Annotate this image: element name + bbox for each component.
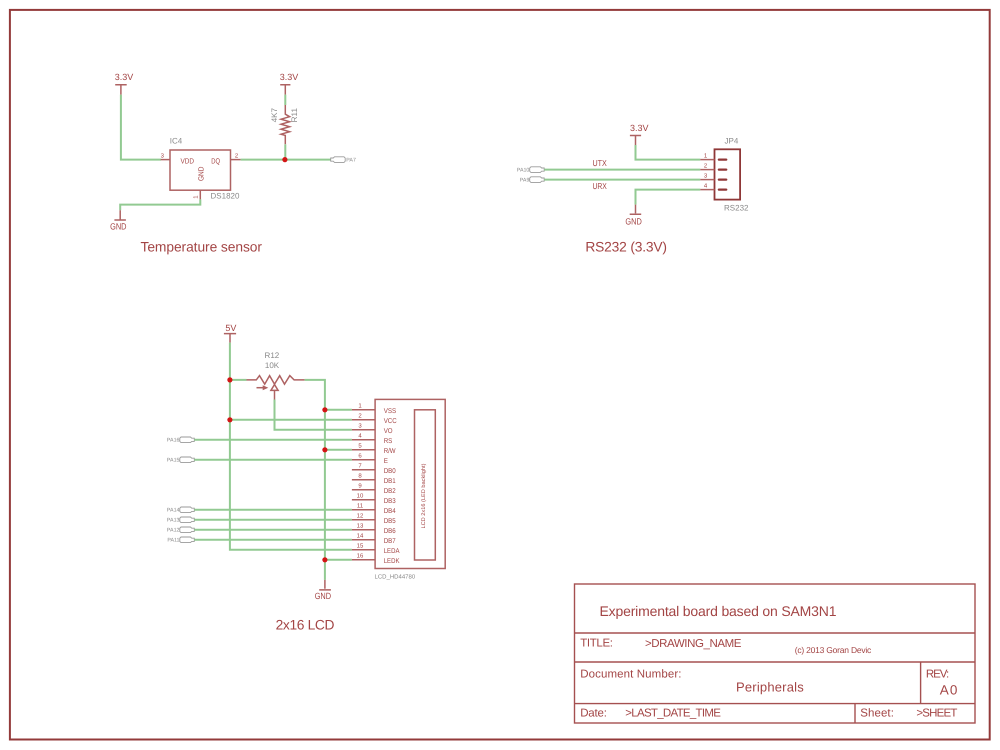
svg-text:R11: R11 <box>290 107 299 122</box>
net flag PA16 <box>167 437 194 444</box>
net flag PA9 <box>520 177 544 184</box>
wire 3.3V to R11 <box>284 95 286 105</box>
wire GND rail to VSS <box>325 409 352 411</box>
net flag PA13 <box>167 517 194 524</box>
junction node DQ/R11/PA7 <box>282 157 287 162</box>
net flag PA10 <box>517 167 544 174</box>
svg-text:TITLE:: TITLE: <box>580 638 613 650</box>
svg-text:DB3: DB3 <box>384 498 396 505</box>
svg-text:RS: RS <box>384 438 393 445</box>
svg-text:VSS: VSS <box>384 408 397 415</box>
svg-text:3.3V: 3.3V <box>115 72 134 82</box>
svg-text:VDD: VDD <box>181 156 195 165</box>
LCD pin 11 (DB4) <box>352 503 396 515</box>
power 3.3V (RS232) <box>630 123 649 145</box>
wire PA11 to DB7 <box>194 539 352 541</box>
LCD pin 12 (DB5) <box>352 513 396 526</box>
wire 5V rail to LEDA <box>230 343 352 550</box>
svg-text:5V: 5V <box>225 323 236 333</box>
svg-text:E: E <box>384 458 388 465</box>
wire 5V rail to R12 left <box>230 379 247 381</box>
net flag PA12 <box>167 527 194 534</box>
svg-text:DS1820: DS1820 <box>211 192 240 201</box>
svg-text:DQ: DQ <box>211 156 220 165</box>
ground GND (RS232) <box>625 205 642 227</box>
svg-text:LEDK: LEDK <box>384 558 400 565</box>
LCD pin 7 (DB0) <box>352 463 396 476</box>
wire R12 wiper to VO <box>275 400 352 430</box>
svg-text:UTX: UTX <box>593 158 608 168</box>
wire GND rail to LEDK <box>325 559 352 561</box>
LCD pin 13 (DB6) <box>352 523 396 536</box>
svg-text:15: 15 <box>357 543 364 550</box>
wire GND rail to R/W <box>325 449 352 451</box>
LCD pin 15 (LEDA) <box>352 543 400 556</box>
svg-text:PA13: PA13 <box>167 518 180 524</box>
svg-text:PA7: PA7 <box>346 158 356 164</box>
junction GND/VSS <box>322 407 327 412</box>
resistor R11 4K7 <box>270 105 299 144</box>
svg-text:11: 11 <box>357 503 364 510</box>
net flag PA14 <box>167 507 194 514</box>
LCD pin 4 (RS) <box>352 433 393 446</box>
net flag PA7 <box>331 157 356 164</box>
svg-text:>LAST_DATE_TIME: >LAST_DATE_TIME <box>625 708 721 720</box>
LCD pin 10 (DB3) <box>352 493 396 506</box>
JP4 pin 1 <box>700 152 726 159</box>
svg-text:Date:: Date: <box>580 708 607 720</box>
LCD pin 16 (LEDK) <box>352 553 400 566</box>
svg-text:>SHEET: >SHEET <box>916 708 957 720</box>
JP4 pin 3 <box>700 172 726 179</box>
svg-text:14: 14 <box>357 533 364 540</box>
svg-text:DB4: DB4 <box>384 508 396 515</box>
svg-text:PA10: PA10 <box>517 168 530 174</box>
svg-text:R/W: R/W <box>384 447 396 455</box>
wire DQ to R11 node and PA7 <box>241 159 331 161</box>
svg-text:Sheet:: Sheet: <box>860 708 894 720</box>
svg-text:10: 10 <box>357 493 364 500</box>
svg-text:PA14: PA14 <box>167 508 180 514</box>
wire URX PA9 to JP4 pin 3 <box>544 179 700 181</box>
svg-text:DB5: DB5 <box>384 518 396 525</box>
svg-text:PA9: PA9 <box>520 178 530 184</box>
LCD pin 3 (VO) <box>352 423 393 436</box>
power 3.3V (above R11) <box>280 72 299 95</box>
svg-text:2x16 LCD: 2x16 LCD <box>276 618 335 633</box>
svg-text:DB0: DB0 <box>384 468 396 475</box>
svg-text:A0: A0 <box>940 682 958 697</box>
wire R11 to node <box>284 144 286 159</box>
junction GND/LEDK <box>322 557 327 562</box>
svg-text:DB2: DB2 <box>384 488 396 495</box>
svg-text:Experimental board based on SA: Experimental board based on SAM3N1 <box>600 603 837 619</box>
svg-text:RS232: RS232 <box>724 204 749 213</box>
svg-text:Document Number:: Document Number: <box>580 669 681 681</box>
svg-text:GND: GND <box>315 591 332 601</box>
LCD pin 1 (VSS) <box>352 403 396 416</box>
svg-text:10K: 10K <box>265 361 280 370</box>
pin 3 (VDD) <box>161 152 170 159</box>
junction 5V/R12 <box>227 377 232 382</box>
connector LCD_HD44780 <box>375 399 446 580</box>
wire PA13 to DB5 <box>194 519 352 521</box>
svg-text:IC4: IC4 <box>170 137 183 146</box>
wire 3.3V to IC4 VDD <box>121 95 161 160</box>
ground GND (LCD) <box>315 580 332 601</box>
svg-text:JP4: JP4 <box>725 136 739 145</box>
svg-text:DB7: DB7 <box>384 538 396 545</box>
svg-text:LCD 2x16 (LED backlight): LCD 2x16 (LED backlight) <box>421 463 427 528</box>
LCD pin 14 (DB7) <box>352 533 396 546</box>
svg-text:LEDA: LEDA <box>384 548 400 555</box>
svg-text:12: 12 <box>357 513 364 520</box>
svg-text:GND: GND <box>110 221 127 231</box>
wire R12 right to GND rail <box>305 380 325 580</box>
power 3.3V (left) <box>115 72 134 95</box>
JP4 pin 4 <box>700 182 726 189</box>
connector JP4 RS232 <box>715 136 750 212</box>
svg-text:GND: GND <box>196 166 205 181</box>
svg-text:PA15: PA15 <box>167 458 180 464</box>
junction GND/R/W <box>322 447 327 452</box>
wire UTX PA10 to JP4 pin 2 <box>544 169 700 171</box>
svg-text:PA11: PA11 <box>167 538 179 544</box>
LCD pin 9 (DB2) <box>352 483 396 496</box>
svg-text:4K7: 4K7 <box>270 107 279 122</box>
wire JP4 pin 4 to GND <box>636 190 701 205</box>
wire PA16 to RS <box>194 439 352 441</box>
svg-text:GND: GND <box>625 216 642 226</box>
svg-text:REV:: REV: <box>926 669 949 681</box>
wire PA14 to DB4 <box>194 509 352 511</box>
svg-text:3.3V: 3.3V <box>280 72 299 82</box>
svg-text:PA12: PA12 <box>167 528 180 534</box>
svg-text:Temperature sensor: Temperature sensor <box>141 240 263 255</box>
JP4 pin 2 <box>700 162 726 169</box>
net flag PA15 <box>167 457 194 464</box>
wire PA12 to DB6 <box>194 529 352 531</box>
potentiometer R12 10K <box>247 351 305 399</box>
LCD pin 8 (DB1) <box>352 473 396 486</box>
svg-text:PA16: PA16 <box>167 438 180 444</box>
LCD pin 6 (E) <box>352 453 388 466</box>
svg-text:Peripherals: Peripherals <box>736 679 804 694</box>
svg-text:13: 13 <box>357 523 364 530</box>
svg-text:RS232 (3.3V): RS232 (3.3V) <box>585 240 667 255</box>
svg-text:(c) 2013 Goran Devic: (c) 2013 Goran Devic <box>795 645 872 655</box>
svg-text:VO: VO <box>384 428 393 435</box>
LCD pin 5 (R/W) <box>352 443 396 456</box>
net flag PA11 <box>167 537 194 544</box>
ground GND (temperature) <box>110 210 127 231</box>
svg-text:16: 16 <box>357 553 364 560</box>
wire PA15 to E <box>194 459 352 461</box>
wire 5V rail to VCC <box>230 419 352 421</box>
IC4 DS1820 <box>170 137 240 201</box>
svg-text:DB1: DB1 <box>384 478 396 485</box>
junction 5V/VCC <box>227 417 232 422</box>
svg-text:URX: URX <box>593 181 608 191</box>
wire 3.3V to JP4 pin 1 <box>636 145 701 160</box>
svg-text:3.3V: 3.3V <box>630 123 649 133</box>
svg-text:R12: R12 <box>265 351 280 360</box>
svg-text:VCC: VCC <box>384 418 397 425</box>
svg-text:LCD_HD44780: LCD_HD44780 <box>375 574 416 581</box>
wire IC4 GND pin to GND <box>120 199 200 210</box>
LCD pin 2 (VCC) <box>352 413 397 426</box>
pin 1 (GND) <box>193 190 201 199</box>
pin 2 (DQ) <box>231 152 241 159</box>
svg-text:>DRAWING_NAME: >DRAWING_NAME <box>645 638 742 650</box>
svg-text:DB6: DB6 <box>384 528 396 535</box>
power 5V <box>224 323 237 343</box>
